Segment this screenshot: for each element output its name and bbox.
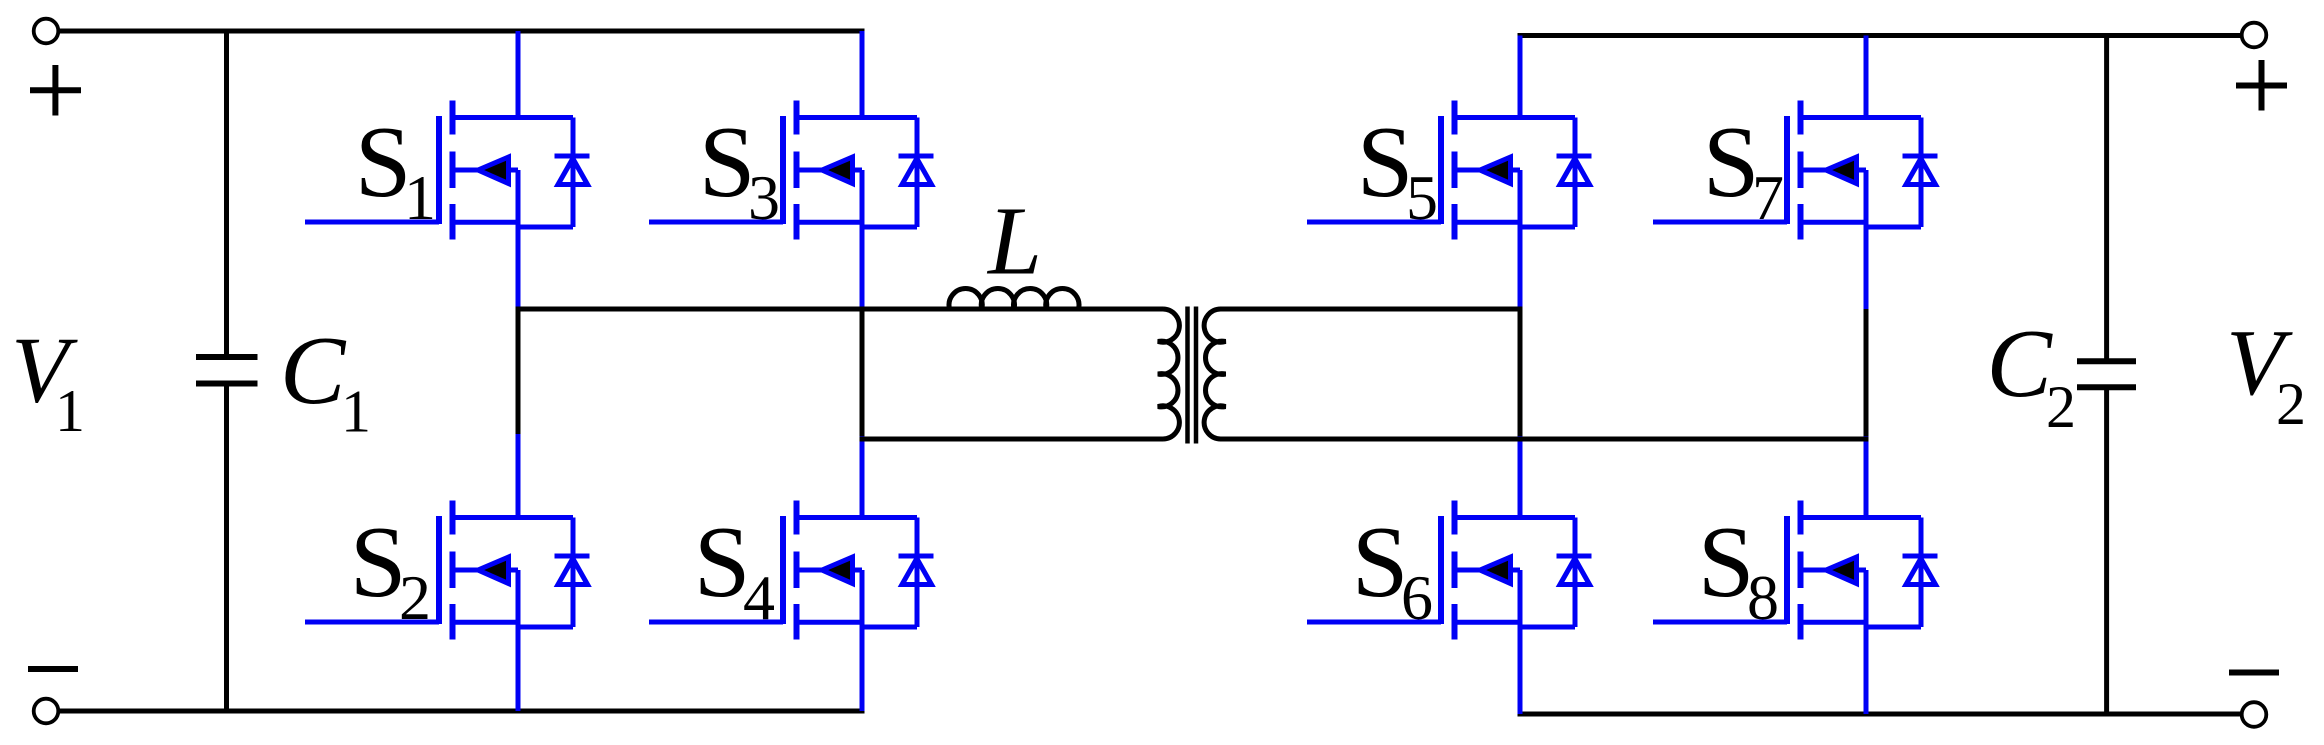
transistor S8 (NMOS with body diode) bbox=[1653, 501, 1938, 640]
plus sign V1 bbox=[30, 65, 81, 116]
wire node D vertical (black) bbox=[1864, 309, 1869, 439]
svg-text:L: L bbox=[986, 188, 1042, 295]
svg-text:8: 8 bbox=[1747, 562, 1779, 633]
wire top rail right (S5 drain to V2+) bbox=[1518, 33, 2243, 38]
terminal V1 positive bbox=[34, 19, 59, 44]
wire S5 source down to node C bbox=[1518, 220, 1523, 312]
wire S7 drain to top rail bbox=[1864, 36, 1869, 121]
wire S7 source down to node D bbox=[1864, 220, 1869, 312]
transformer T1 core bbox=[1188, 307, 1197, 444]
minus sign V1 bbox=[28, 666, 78, 672]
label S6 bbox=[1352, 506, 1433, 633]
wire S1 source down to node A bbox=[516, 220, 521, 312]
wire S2 source to bottom rail bbox=[516, 620, 521, 711]
wire node A to inductor and transformer primary top bbox=[516, 307, 1164, 312]
label S4 bbox=[694, 506, 775, 633]
svg-text:1: 1 bbox=[341, 379, 371, 445]
transformer T1 secondary winding bbox=[1204, 309, 1225, 439]
label S8 bbox=[1698, 506, 1779, 633]
wire S1 drain to top rail bbox=[516, 31, 521, 120]
wire node B vertical (black) bbox=[860, 309, 865, 439]
transistor S6 (NMOS with body diode) bbox=[1307, 501, 1592, 640]
wire bottom rail left (V1- to S4 source) bbox=[58, 709, 865, 714]
label C2 bbox=[1987, 310, 2077, 440]
wire S8 source to bottom rail bbox=[1864, 620, 1869, 714]
terminal V2 positive bbox=[2242, 23, 2267, 48]
label S7 bbox=[1703, 106, 1784, 233]
svg-text:1: 1 bbox=[55, 378, 85, 444]
wire S5 drain to top rail bbox=[1518, 36, 1523, 121]
inductor L bbox=[949, 288, 1079, 309]
transformer T1 primary winding bbox=[1158, 309, 1179, 439]
wire S3 source down to node B bbox=[860, 220, 865, 312]
wire node C vertical (black) bbox=[1518, 309, 1523, 439]
svg-text:2: 2 bbox=[2276, 371, 2306, 437]
wire S3 drain to top rail bbox=[860, 31, 865, 120]
label S3 bbox=[699, 106, 780, 233]
transistor S1 (NMOS with body diode) bbox=[305, 101, 590, 240]
wire top rail left (V1+ to S3 drain) bbox=[58, 29, 865, 34]
wire S2 drain from node A bbox=[516, 434, 521, 520]
svg-text:C: C bbox=[1987, 310, 2054, 418]
wire S4 drain from node B bbox=[860, 436, 865, 520]
terminal V1 negative bbox=[34, 699, 59, 724]
transistor S3 (NMOS with body diode) bbox=[649, 101, 934, 240]
label V1 bbox=[11, 319, 85, 445]
transistor S5 (NMOS with body diode) bbox=[1307, 101, 1592, 240]
label C1 bbox=[280, 317, 371, 445]
wire transformer secondary top to node C bbox=[1220, 307, 1523, 312]
transistor S7 (NMOS with body diode) bbox=[1653, 101, 1938, 240]
svg-text:4: 4 bbox=[743, 562, 775, 633]
plus sign V2 bbox=[2236, 60, 2287, 111]
transistor S4 (NMOS with body diode) bbox=[649, 501, 934, 640]
wire node A vertical (black) bbox=[516, 309, 521, 436]
svg-text:1: 1 bbox=[404, 162, 436, 233]
svg-text:7: 7 bbox=[1752, 162, 1784, 233]
svg-text:5: 5 bbox=[1406, 162, 1438, 233]
svg-text:2: 2 bbox=[399, 562, 431, 633]
capacitor C1 bbox=[196, 31, 258, 711]
capacitor C2 bbox=[2077, 36, 2136, 715]
svg-text:C: C bbox=[280, 317, 347, 425]
label S5 bbox=[1357, 106, 1438, 233]
wire S6 source to bottom rail bbox=[1518, 620, 1523, 714]
svg-text:6: 6 bbox=[1401, 562, 1433, 633]
wire S6 drain from node C bbox=[1518, 436, 1523, 520]
label S2 bbox=[350, 506, 431, 633]
wire S8 drain from node D bbox=[1864, 436, 1869, 520]
label V2 bbox=[2226, 311, 2306, 437]
wire transformer secondary bottom to node D bbox=[1220, 437, 1869, 442]
terminal V2 negative bbox=[2242, 702, 2267, 727]
svg-text:3: 3 bbox=[748, 162, 780, 233]
transistor S2 (NMOS with body diode) bbox=[305, 501, 590, 640]
svg-text:2: 2 bbox=[2046, 374, 2076, 440]
minus sign V2 bbox=[2229, 670, 2279, 676]
wire S4 source to bottom rail bbox=[860, 620, 865, 711]
wire bottom rail right (S6 source to V2-) bbox=[1518, 712, 2243, 717]
label S1 bbox=[355, 106, 436, 233]
wire node B to transformer primary bottom bbox=[860, 437, 1164, 442]
